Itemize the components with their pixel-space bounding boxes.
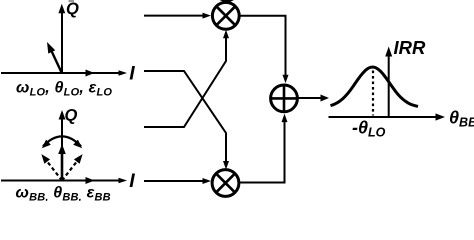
BB phase sweep arc (43, 136, 81, 146)
LO I-component vector arrowhead (86, 70, 95, 77)
svg-text:I: I (129, 63, 135, 85)
BB dashed vector (46, 160, 62, 181)
wire cross path B (bottom to top mixer) (144, 38, 226, 127)
BB middle vector (61, 152, 64, 181)
svg-text:Q: Q (65, 107, 78, 125)
node BB I-axis (1, 180, 122, 182)
node theta_BB axis (329, 116, 437, 118)
node LO I-axis (1, 72, 122, 74)
dotted peak marker at -theta_LO (372, 71, 374, 116)
wire M2 output to summer (239, 122, 285, 183)
mixer M1 (I path) (212, 2, 239, 29)
svg-text:I: I (129, 170, 135, 192)
svg-text:Q: Q (66, 0, 79, 18)
wire summer output (297, 97, 321, 99)
svg-text:IRR: IRR (394, 37, 427, 58)
wire bottom input to mixer M2 (144, 180, 203, 182)
BB I-component vector arrowhead (86, 177, 95, 184)
wire top input to mixer M1 (144, 15, 203, 17)
BB dashed vector (62, 160, 78, 181)
wire M1 output to summer (240, 16, 286, 76)
LO vector with phase error (52, 51, 63, 74)
cropped LO arrowhead above mixer M1 (220, 0, 235, 3)
wire cross path A (top to bottom mixer) (144, 71, 226, 162)
node BB Q-axis (61, 115, 63, 181)
IRR bell curve (331, 67, 419, 106)
node LO Q-axis (61, 9, 63, 74)
summer S1 (271, 85, 298, 112)
gray crop artifact above Q (69, 0, 75, 2)
mixer M2 (Q path) (212, 170, 239, 197)
node IRR axis (388, 56, 390, 117)
